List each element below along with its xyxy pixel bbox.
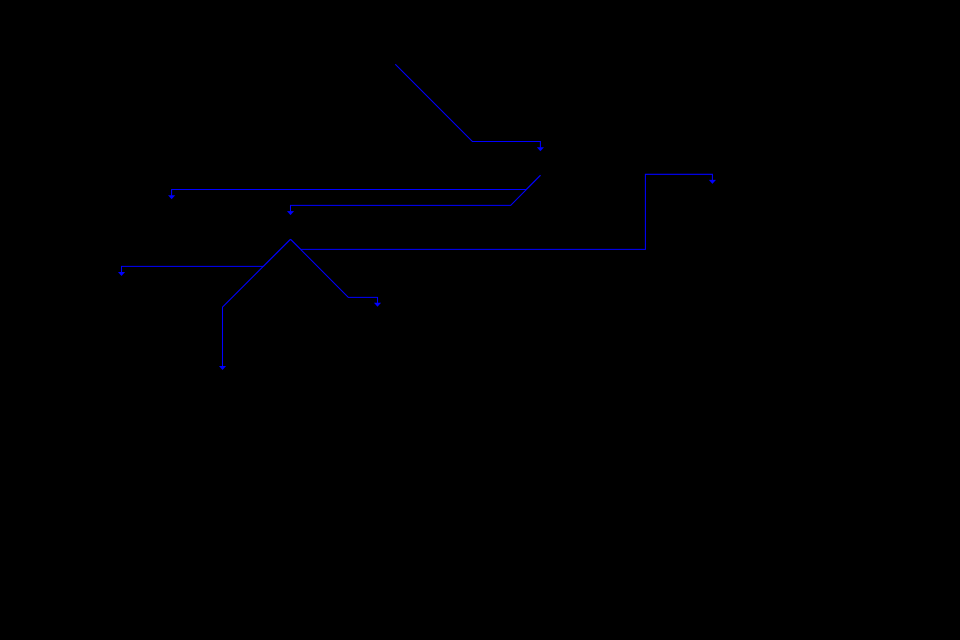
arrowhead edge5 [219,366,226,370]
arrowhead edge4 [118,272,125,276]
wire edge2 node B to node C [172,175,541,195]
arrowhead edge6 [374,303,381,307]
wire edge1 node A to node B [395,64,540,147]
wire edge7 node D to node H [291,174,713,249]
arrowhead edge3 [287,211,294,215]
arrowhead edge7 [709,180,716,184]
arrowhead edge1 [537,147,544,151]
wire edge3 node B to node D [291,175,541,211]
wire edge6 node D to node G [291,239,378,303]
wire edge4 node D to node E [122,239,291,272]
wire edge5 node D to node F [223,239,291,366]
arrowhead edge2 [168,195,175,199]
